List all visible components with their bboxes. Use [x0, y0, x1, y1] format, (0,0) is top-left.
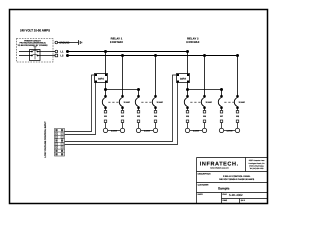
node: SSR2 output junction	[186, 88, 189, 91]
svg-text:20 AMP: 20 AMP	[239, 101, 246, 104]
svg-text:DATE: DATE	[198, 193, 204, 196]
svg-text:S-2D-4002: S-2D-4002	[229, 193, 243, 197]
svg-text:LOW VOLTAGE CONTROL INPUT: LOW VOLTAGE CONTROL INPUT	[44, 121, 47, 158]
breaker pole W1	[102, 95, 106, 111]
wire: control input 1 to SSR1	[65, 75, 96, 132]
heater load HTR1	[103, 128, 124, 132]
svg-text:4.0KW: 4.0KW	[111, 129, 117, 132]
dashed box: primary circuit protection note	[17, 39, 54, 63]
wire: SSR1 sub-bus to pole W3	[106, 89, 139, 91]
wire: ground	[58, 42, 79, 44]
breaker pole W7	[218, 95, 223, 111]
ground terminal	[55, 41, 58, 44]
wire: L2 bus	[68, 55, 238, 57]
svg-text:www.infratech-usa.com: www.infratech-usa.com	[210, 167, 229, 170]
breaker pole W2	[119, 54, 124, 111]
breaker tie bar W3/W4	[141, 101, 152, 103]
wire: L1 feed through CB0	[19, 51, 32, 53]
svg-text:8 KW MAX: 8 KW MAX	[110, 41, 123, 44]
node: L2 bus origin	[66, 54, 69, 57]
relay SSR1	[95, 74, 108, 83]
svg-text:INFRATECH.: INFRATECH.	[200, 161, 239, 167]
svg-text:4.0KW: 4.0KW	[193, 129, 199, 132]
terminal W7	[220, 111, 224, 129]
relay SSR2	[177, 74, 190, 83]
node: sub-bus junction at W3	[137, 88, 140, 91]
svg-text:20 AMP: 20 AMP	[124, 101, 131, 104]
breaker tie bar W7/W8	[224, 101, 234, 103]
terminal L1	[55, 50, 58, 53]
svg-text:8 KW MAX: 8 KW MAX	[186, 41, 199, 44]
terminal strip TB1 (low voltage control)	[55, 129, 65, 157]
terminal W2	[121, 111, 125, 129]
ground symbol	[79, 40, 82, 45]
node: L1 tap for SSR1	[104, 50, 107, 53]
svg-text:240 VOLT SINGLE PHASE 50 AMPS: 240 VOLT SINGLE PHASE 50 AMPS	[219, 178, 255, 181]
drawing border frame	[10, 10, 268, 204]
breaker pole W8	[234, 54, 239, 111]
breaker pole W5	[184, 95, 189, 111]
breaker pole W4	[152, 54, 157, 111]
svg-text:DWG: DWG	[223, 199, 228, 202]
wire: L1 down to SSR2	[187, 52, 189, 75]
svg-text:SSR2: SSR2	[180, 77, 187, 80]
terminal L2	[55, 54, 58, 57]
terminal W6	[203, 111, 207, 129]
heater load HTR2	[136, 128, 157, 132]
wire: SSR2 output down	[187, 83, 189, 97]
breaker tie bar W5/W6	[190, 101, 201, 103]
breaker tie bar W1/W2	[108, 101, 119, 103]
heater load HTR4	[219, 128, 239, 132]
terminal W4	[154, 111, 158, 129]
terminal W3	[137, 111, 141, 129]
wire: SSR1 output down	[105, 83, 107, 97]
node: sub-bus junction at W7	[220, 88, 223, 91]
svg-text:20 AMP: 20 AMP	[157, 101, 164, 104]
wire: control input 2 to SSR1	[65, 83, 96, 135]
terminal W8	[236, 111, 240, 129]
breaker pole W3	[135, 95, 140, 111]
title block	[197, 158, 269, 204]
breaker CB0 (2-pole main, in dashed box)	[30, 47, 41, 61]
svg-text:SH 1: SH 1	[241, 199, 245, 202]
heater load HTR3	[185, 128, 206, 132]
wire: L1 down to SSR1	[105, 52, 107, 75]
breaker pole W6	[201, 54, 206, 111]
svg-text:TO BE PROVIDED BY OTHERS: TO BE PROVIDED BY OTHERS	[18, 44, 49, 47]
wire: SSR2 sub-bus to pole W7	[188, 89, 222, 91]
svg-text:DESCRIPTION: DESCRIPTION	[198, 172, 212, 175]
wire: control input 4 to SSR2	[65, 83, 178, 145]
svg-text:4.0KW: 4.0KW	[226, 129, 232, 132]
wire: control input 3 to SSR2	[65, 75, 178, 142]
terminal W1	[104, 111, 108, 129]
title block: address	[249, 159, 266, 170]
svg-text:20 AMP: 20 AMP	[206, 101, 213, 104]
terminal W5	[186, 111, 190, 129]
wire: L2 feed through CB0	[19, 55, 32, 57]
svg-text:SSR1: SSR1	[98, 77, 105, 80]
svg-text:2 RELAY CONTROL PANEL: 2 RELAY CONTROL PANEL	[223, 175, 251, 178]
svg-text:GROUND: GROUND	[59, 42, 69, 45]
node: L1 tap for SSR2	[186, 50, 189, 53]
node: SSR1 output junction	[104, 88, 107, 91]
svg-text:CUSTOMER: CUSTOMER	[198, 183, 209, 186]
svg-text:240 VOLT 10-50 AMPS: 240 VOLT 10-50 AMPS	[20, 29, 51, 33]
node: L1 bus origin	[66, 50, 69, 53]
svg-text:4.0KW: 4.0KW	[144, 129, 150, 132]
svg-text:Sample: Sample	[218, 186, 230, 190]
wire: L1 bus	[68, 51, 188, 53]
